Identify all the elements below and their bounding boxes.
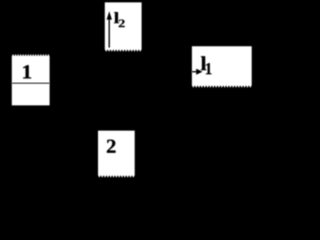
- label I1: [201, 56, 212, 74]
- current arrow I2: [107, 11, 112, 47]
- divider line in element 1: [12, 83, 50, 84]
- element 2 box (bottom): [98, 131, 135, 178]
- current arrow I1: [192, 69, 203, 75]
- element 1 box (left): [12, 54, 50, 105]
- label 1: [23, 65, 31, 78]
- label I2: [114, 12, 125, 27]
- current source box with arrow I1 (right): [192, 46, 252, 87]
- label 2: [107, 140, 116, 153]
- current source box with arrow I2 (top): [105, 2, 142, 51]
